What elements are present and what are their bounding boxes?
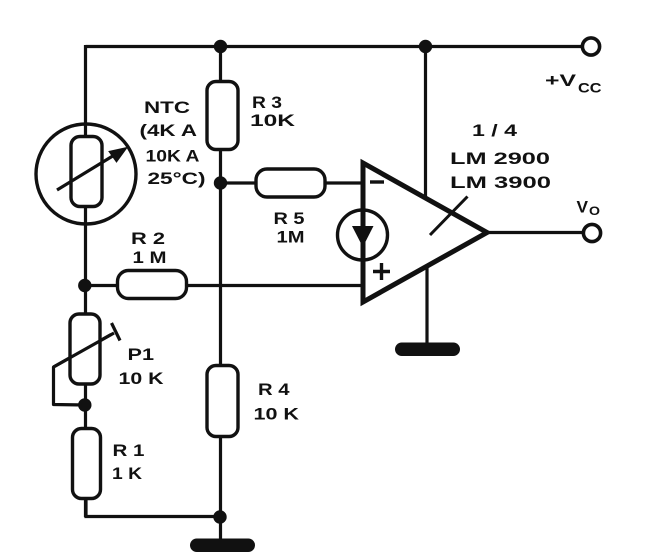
wire: top supply rail (86, 45, 585, 48)
svg-text:1 M: 1 M (133, 248, 167, 267)
terminal +Vcc (582, 38, 599, 55)
svg-text:CC: CC (578, 80, 602, 96)
node: P1 wiper / R1 junction (78, 398, 91, 411)
op-amp current source line (361, 210, 366, 260)
op-amp slash mark (430, 197, 468, 236)
wire: op-amp output to Vo terminal (485, 231, 584, 234)
svg-text:+V: +V (545, 72, 576, 90)
svg-text:1 / 4: 1 / 4 (472, 121, 518, 140)
op-amp current source arrowhead (352, 226, 374, 247)
wire: bottom ground rail (86, 497, 221, 517)
svg-text:P1: P1 (128, 345, 155, 364)
svg-text:10 K: 10 K (254, 405, 300, 424)
thermistor NTC body (71, 137, 102, 207)
svg-text:LM 3900: LM 3900 (450, 173, 551, 192)
svg-text:10K: 10K (250, 111, 296, 130)
node: top rail / R3 junction (214, 40, 227, 53)
potentiometer P1 wiper arrow (54, 323, 121, 367)
thermistor NTC arrow (57, 148, 127, 191)
svg-text:R 4: R 4 (258, 380, 290, 399)
wire: op-amp ground stub (425, 263, 428, 344)
wire: ground stub bottom (219, 517, 222, 540)
svg-text:25°C): 25°C) (148, 169, 206, 188)
ground (op-amp) (395, 343, 460, 357)
resistor R5 body (256, 169, 325, 197)
resistor R2 body (118, 271, 187, 299)
resistor R3 body (207, 82, 238, 150)
node: R3-R4-R5 junction (214, 176, 227, 189)
svg-text:O: O (589, 204, 600, 218)
wire: op-amp V+ supply (424, 47, 427, 200)
svg-text:R 2: R 2 (131, 229, 165, 248)
potentiometer P1 body (70, 314, 100, 384)
resistor R4 body (207, 366, 238, 437)
svg-text:(4K A: (4K A (140, 121, 198, 140)
op-amp U1 triangle (363, 163, 487, 302)
svg-text:1M: 1M (277, 228, 305, 247)
op-amp inverting pin mark (370, 180, 384, 183)
node: top rail / op-amp supply junction (419, 40, 432, 53)
node: NTC-R2-P1 junction (78, 279, 91, 292)
wire: R2 to non-inverting input (86, 284, 366, 287)
wire: left vertical branch (84, 45, 87, 517)
svg-text:10K A: 10K A (146, 147, 200, 166)
thermistor NTC (circle outline) (36, 124, 136, 224)
resistor R1 body (73, 429, 101, 499)
label +Vcc (545, 72, 602, 96)
svg-text:NTC: NTC (144, 98, 190, 117)
op-amp non-inverting pin mark (373, 263, 390, 280)
op-amp current source circle (338, 210, 388, 260)
wire: P1 wiper return (54, 335, 112, 406)
terminal Vo (583, 224, 600, 241)
svg-text:R 5: R 5 (274, 209, 305, 228)
label Vo (577, 198, 601, 219)
svg-text:V: V (577, 198, 589, 217)
ground (bottom) (190, 539, 255, 553)
svg-text:1 K: 1 K (112, 464, 143, 483)
svg-text:LM 2900: LM 2900 (450, 149, 550, 168)
svg-text:10 K: 10 K (119, 369, 165, 388)
svg-text:R 3: R 3 (252, 93, 282, 112)
wire: R5 to inverting input (221, 181, 366, 184)
wire: R3/R4 vertical branch (219, 47, 222, 518)
svg-text:R 1: R 1 (113, 441, 145, 460)
node: ground rail junction (213, 510, 226, 523)
